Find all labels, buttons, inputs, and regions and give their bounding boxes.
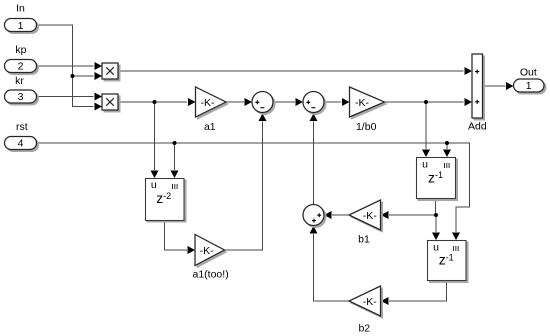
junction dot rst to z-2 (173, 141, 177, 145)
wire gain a1 to sum S1 (226, 101, 244, 103)
outport Out (514, 67, 547, 94)
arrowhead into sum S1 (245, 98, 253, 106)
wire 1/b0 output to Add input 2 and down to delay D1 (385, 102, 464, 149)
svg-text:1/b0: 1/b0 (356, 121, 377, 133)
wire delay D1 output to gain b1 and delay D2 (389, 199, 436, 233)
svg-text:1: 1 (18, 20, 24, 32)
add block Add (468, 54, 487, 132)
junction dot on In net (71, 74, 75, 78)
wire gain b2 to sum S3 bottom (314, 234, 349, 301)
inport kr (5, 75, 39, 105)
svg-text:-K-: -K- (200, 245, 215, 257)
arrowhead into sum S1 bottom (259, 114, 267, 122)
sum S1 (252, 92, 275, 115)
svg-text:-K-: -K- (363, 210, 378, 222)
arrowhead kp to P1 (95, 62, 103, 70)
arrowhead into sum S3 bottom (310, 226, 318, 234)
svg-text:-K-: -K- (355, 97, 370, 109)
wire kr to P2 (37, 96, 94, 98)
svg-text:kr: kr (15, 75, 24, 87)
svg-text:rst: rst (16, 121, 28, 133)
arrowhead into delay D1 u port (422, 150, 430, 158)
arrowhead In to P1 lower input (95, 72, 103, 80)
wire delay z-2 output to gain a1too (165, 221, 188, 251)
svg-text:-K-: -K- (363, 296, 378, 308)
inport kp (5, 44, 39, 74)
svg-text:u: u (151, 179, 157, 191)
arrowhead into gain b1 (381, 211, 389, 219)
arrowhead into sum S2 (296, 98, 304, 106)
arrowhead In to P2 lower input (95, 103, 103, 111)
arrowhead into Add input 1 (465, 67, 473, 75)
product P2 (102, 94, 120, 112)
arrowhead into sum S3 right (324, 211, 332, 219)
delay D2 z^-1 lower (428, 241, 469, 283)
junction dot rst to D1 (445, 141, 449, 145)
wire In to products P1 P2 (37, 25, 94, 107)
arrowhead into sum S2 bottom (310, 114, 318, 122)
product P1 (102, 63, 120, 81)
arrowhead kr to P2 (95, 93, 103, 101)
svg-text:b2: b2 (358, 323, 370, 335)
arrowhead into gain a1 (188, 98, 196, 106)
arrowhead into gain b2 (381, 297, 389, 305)
arrowhead into gain a1too (188, 246, 196, 254)
junction dot on 1/b0 output net (424, 100, 428, 104)
arrowhead into Add input 2 (465, 98, 473, 106)
wire sum S3 to sum S2 bottom (313, 122, 315, 205)
svg-text:In: In (16, 2, 25, 14)
svg-text:1: 1 (526, 80, 532, 92)
arrowhead into delay D2 u port (432, 233, 440, 241)
svg-text:Out: Out (520, 67, 537, 79)
svg-text:b1: b1 (358, 233, 370, 245)
svg-text:2: 2 (18, 61, 24, 73)
gain a1 (196, 87, 229, 133)
wire rst net (37, 143, 470, 232)
arrowhead rst into delay z-2 reset port (171, 171, 179, 179)
arrowhead rst into delay D2 reset port (452, 233, 460, 241)
gain 1/b0 (350, 87, 387, 133)
wire Add output to Out port (483, 85, 506, 87)
delay D1 z^-1 upper (417, 158, 458, 201)
sum S2 (303, 92, 326, 115)
wire sum S2 to gain 1/b0 (324, 101, 341, 103)
inport rst (5, 121, 39, 151)
gain b1 (349, 200, 383, 245)
wire gain b1 to sum S3 right (332, 214, 349, 216)
svg-text:a1: a1 (204, 121, 216, 133)
wire P2 output to gain a1 and down to delay z-2 (119, 102, 188, 170)
svg-text:-K-: -K- (201, 97, 216, 109)
svg-text:Add: Add (468, 120, 487, 132)
svg-text:a1(too!): a1(too!) (193, 269, 229, 281)
svg-text:4: 4 (18, 138, 24, 150)
delay z^-2 (146, 179, 187, 223)
junction dot on D1 output net (434, 213, 438, 217)
gain a1too (193, 235, 229, 281)
wire kp to P1 (37, 65, 94, 67)
wire delay D2 output to gain b2 (389, 281, 447, 302)
arrowhead into delay z-2 u port (151, 171, 159, 179)
wire sum S1 to sum S2 (273, 101, 295, 103)
arrowhead into Out port (506, 82, 514, 90)
wire P1 output to Add input 1 (119, 70, 464, 72)
wire gain a1too feedback to sum S1 bottom (225, 122, 263, 251)
svg-text:kp: kp (15, 44, 26, 56)
junction dot on P2 output net (153, 100, 157, 104)
svg-text:3: 3 (18, 91, 24, 103)
arrowhead into gain 1/b0 (342, 98, 350, 106)
inport In (5, 2, 39, 33)
gain b2 (349, 286, 383, 335)
arrowhead rst into delay D1 reset port (443, 150, 451, 158)
sum S3 (303, 205, 326, 228)
